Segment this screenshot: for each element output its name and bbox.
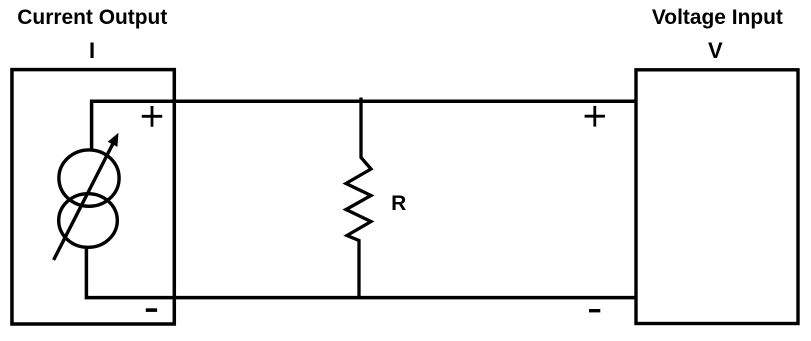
resistor R [346,98,371,300]
minus sign left (- terminal of source) [146,308,157,312]
svg-text:Current Output: Current Output [17,6,167,29]
voltage input box [636,70,798,324]
svg-text:Voltage Input: Voltage Input [652,6,783,29]
current source I1 arrow [54,143,114,261]
current output box [12,70,174,324]
svg-text:R: R [391,192,406,215]
wire bottom (source negative lead to voltage box) [86,247,636,298]
minus sign right (- terminal of voltage input) [589,309,600,312]
plus sign left (+ terminal of source) [142,106,162,127]
current source I1 circle bottom [59,194,118,248]
plus sign right (+ terminal of voltage input) [585,106,605,127]
svg-text:V: V [708,38,723,63]
current source I1 circle top [59,150,119,206]
svg-text:I: I [89,38,95,63]
wire top (source positive lead to voltage box) [92,101,636,150]
